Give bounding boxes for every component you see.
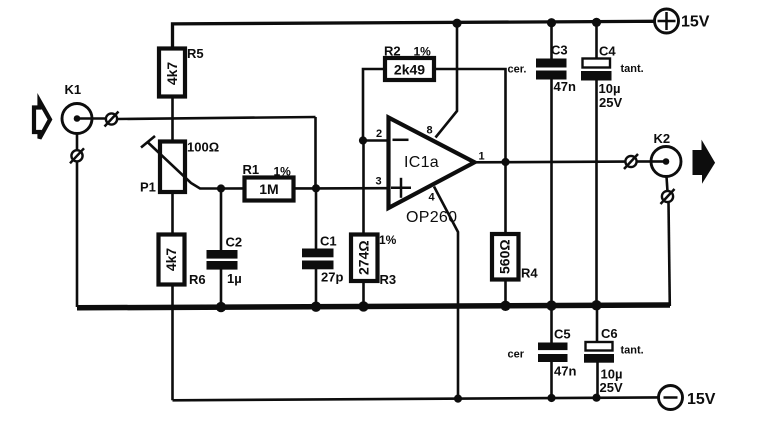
wire: -15V bottom rail	[173, 397, 659, 400]
resistor R6 4k7	[159, 235, 206, 288]
terminal circle on K2 ground lead	[661, 189, 675, 204]
svg-text:1%: 1%	[379, 233, 397, 247]
wire: C4 top lead from +15V rail	[595, 22, 598, 58]
potentiometer P1 100R	[140, 136, 221, 195]
wire: C6 bottom lead to -15V rail	[596, 358, 599, 398]
junction: C1 on ground bus	[311, 302, 321, 312]
svg-text:R3: R3	[380, 272, 397, 287]
terminal circle on K1 signal line	[105, 112, 119, 127]
wire: K1 shield to lower terminal	[76, 134, 79, 151]
junction: P1 wiper / R1 / C2 node	[217, 184, 225, 192]
wire: K1 ground column to bus	[76, 162, 79, 308]
wire: input corner down to non-inverting node	[314, 117, 317, 188]
wire: P1 wiper node through R1 to non-inverting node	[221, 187, 316, 190]
svg-text:1: 1	[479, 151, 485, 163]
svg-text:R6: R6	[189, 272, 206, 287]
svg-text:R2: R2	[384, 44, 401, 59]
resistor R5 4k7	[159, 46, 204, 97]
resistor R3 274R 1%	[351, 233, 397, 287]
capacitor C6 10u 25V tantalum	[584, 326, 644, 395]
svg-text:4: 4	[429, 192, 436, 204]
wire: +15V top rail with drop to R5	[173, 21, 656, 49]
svg-text:2: 2	[376, 128, 382, 140]
junction: non-inverting input node	[312, 184, 320, 192]
svg-text:4k7: 4k7	[164, 62, 180, 86]
junction: output / feedback node	[501, 158, 509, 166]
junction: R3 on ground bus	[358, 301, 368, 311]
wire: K2 ground column to bus end	[669, 202, 670, 306]
junction: C4 on +15V rail	[592, 18, 601, 27]
svg-text:C3: C3	[551, 43, 568, 58]
wire: output node down through R4 to ground bus	[504, 162, 507, 306]
svg-text:C1: C1	[320, 234, 337, 249]
capacitor C3 47n ceramic	[508, 43, 576, 95]
svg-text:R1: R1	[243, 162, 260, 177]
junction: C6 on -15V rail	[592, 394, 600, 402]
op-amp IC1a OP260	[389, 118, 475, 227]
wire: C6 top lead from ground bus	[596, 306, 599, 343]
wire: R5-P1-R6 divider column	[171, 95, 174, 240]
wire: op-amp pin 4 supply lead down to -15V rail	[434, 187, 458, 400]
svg-text:25V: 25V	[600, 380, 623, 395]
svg-text:100Ω: 100Ω	[187, 140, 219, 155]
svg-text:47n: 47n	[554, 364, 576, 379]
svg-text:1µ: 1µ	[227, 271, 242, 286]
junction: C2 on ground bus	[216, 302, 226, 312]
wire: R6 bottom column crossing ground bus to -15V rail	[171, 283, 174, 400]
connector K2 (output socket)	[651, 131, 681, 177]
capacitor C4 10u 25V tantalum	[581, 44, 644, 111]
svg-text:10µ: 10µ	[599, 81, 621, 96]
svg-text:tant.: tant.	[621, 63, 644, 75]
svg-text:cer.: cer.	[508, 64, 527, 76]
junction: inverting input node	[359, 136, 367, 144]
wire: C1 bottom lead to ground bus	[315, 264, 318, 308]
svg-text:K2: K2	[654, 131, 671, 146]
wire: K1 signal line to input corner	[117, 117, 316, 119]
svg-text:C6: C6	[601, 326, 618, 341]
capacitor C1 27p	[302, 234, 343, 285]
svg-text:8: 8	[427, 125, 433, 137]
junction: C3 on +15V rail	[547, 18, 556, 27]
svg-text:27p: 27p	[321, 270, 343, 285]
svg-text:47n: 47n	[554, 79, 576, 94]
wire: terminal to K2 centre	[637, 160, 653, 163]
wire: op-amp output line to K2	[474, 160, 626, 163]
svg-text:15V: 15V	[681, 14, 710, 31]
svg-text:R5: R5	[187, 46, 204, 61]
junction: pin4 lead on -15V rail	[454, 395, 462, 403]
junction: R4 on ground bus	[500, 301, 510, 311]
svg-text:IC1a: IC1a	[404, 154, 439, 171]
svg-text:R4: R4	[521, 266, 538, 281]
svg-text:K1: K1	[65, 82, 82, 97]
svg-text:3: 3	[376, 176, 382, 188]
wire: C5 bottom lead to -15V rail	[550, 357, 553, 398]
svg-text:C5: C5	[554, 327, 571, 342]
wire: C3 bottom lead to ground bus	[550, 76, 553, 306]
junction: C6 on ground bus	[591, 300, 601, 310]
resistor R2 2k49 1%	[384, 44, 434, 81]
svg-text:C2: C2	[226, 235, 243, 250]
connector K1 (input socket)	[62, 82, 105, 134]
-15V supply symbol	[659, 386, 716, 410]
junction: C5 on -15V rail	[547, 394, 555, 402]
wire: C2 bottom lead to ground bus	[220, 266, 223, 308]
wire: K2 shield to lower terminal	[667, 177, 668, 192]
svg-text:4k7: 4k7	[163, 248, 179, 272]
svg-text:P1: P1	[140, 180, 156, 195]
junction: pin8 on +15V rail	[452, 19, 461, 28]
resistor R1 1M 1%	[243, 162, 294, 201]
svg-text:15V: 15V	[687, 391, 716, 408]
terminal circle on K1 ground lead	[70, 148, 84, 163]
wire: C4 bottom lead to ground bus	[595, 76, 598, 306]
wire: C2 top lead from wiper node	[220, 189, 223, 254]
svg-text:OP260: OP260	[406, 209, 457, 226]
wire: ground bus (thick)	[77, 305, 670, 308]
wire: R2 left lead down to inverting input node	[363, 69, 385, 141]
svg-text:274Ω: 274Ω	[356, 240, 372, 275]
capacitor C2 1u	[207, 235, 243, 287]
wire: non-inverting node to op-amp pin 3	[316, 187, 391, 190]
svg-text:1M: 1M	[259, 181, 278, 197]
svg-text:tant.: tant.	[621, 345, 644, 357]
resistor R4 560R	[492, 234, 538, 281]
wire: op-amp pin 8 supply lead up to +15V rail	[436, 23, 458, 138]
svg-text:cer: cer	[508, 349, 525, 361]
wire: R2 right lead / feedback down to output node	[434, 69, 506, 162]
wire: C5 top lead from ground bus	[550, 306, 553, 346]
wire: C1 top lead from non-inverting node	[315, 188, 318, 252]
+15V supply symbol	[655, 9, 710, 33]
output arrow at K2	[693, 142, 715, 183]
capacitor C5 47n ceramic	[508, 327, 577, 379]
svg-text:2k49: 2k49	[394, 62, 425, 78]
wire: R3 bottom lead to ground bus	[362, 279, 365, 308]
svg-text:560Ω: 560Ω	[497, 239, 513, 274]
svg-text:1%: 1%	[274, 165, 292, 179]
input arrow at K1	[34, 101, 50, 139]
wire: C3 top lead from +15V rail	[550, 23, 553, 64]
svg-text:25V: 25V	[599, 95, 622, 110]
wire: inverting input stub to pin 2	[363, 139, 390, 142]
junction: C5 on ground bus	[546, 300, 556, 310]
terminal circle on K2 signal line	[624, 154, 638, 169]
svg-text:1%: 1%	[414, 45, 432, 59]
wire: node at pin2 down to R3	[362, 141, 365, 239]
svg-text:C4: C4	[599, 44, 616, 59]
